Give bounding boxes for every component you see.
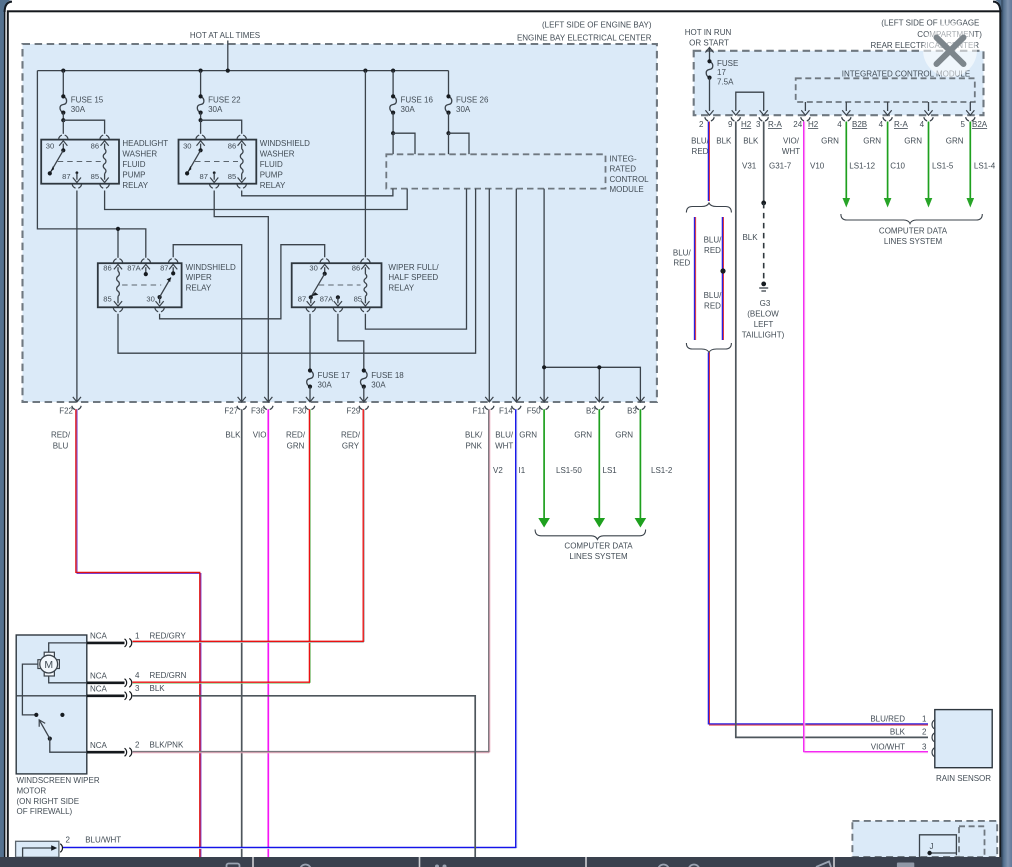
wire relay4 pin85 to ICM (365, 189, 466, 330)
svg-text:86: 86 (228, 142, 236, 151)
wire ICM to F11 (485, 189, 493, 402)
svg-text:WINDSHIELD: WINDSHIELD (260, 139, 310, 148)
svg-text:7.5A: 7.5A (717, 78, 734, 87)
park switch (34, 713, 64, 741)
svg-text:RED/GRY: RED/GRY (150, 631, 187, 640)
net HOT AT ALL TIMES (190, 31, 260, 71)
svg-text:FUSE 16: FUSE 16 (401, 96, 434, 105)
svg-text:B2B: B2B (852, 120, 867, 129)
fuse F17 7.5A (rear) (705, 48, 738, 116)
svg-text:WHT: WHT (495, 441, 513, 450)
ICM rear pin wire x=805.4 (801, 102, 809, 115)
svg-text:H2: H2 (808, 120, 819, 129)
connector F27 (224, 406, 246, 416)
fuse F15 30A (60, 71, 105, 134)
wire GRN data line x=970.3 (967, 122, 975, 208)
svg-text:G3: G3 (760, 299, 771, 308)
rear pin labels (699, 120, 988, 129)
svg-text:F36: F36 (251, 407, 265, 416)
wire GRN data line x=887.6 (884, 122, 892, 208)
svg-text:HEADLIGHT: HEADLIGHT (122, 139, 168, 148)
ICM rear pin wire x=928.5 (924, 102, 932, 115)
twisted pair brace bottom (686, 343, 731, 353)
svg-text:2: 2 (922, 727, 927, 736)
svg-text:GRN: GRN (615, 430, 633, 439)
wire pin2 BLU/RED upper section (708, 122, 709, 202)
wire F27 BLK to bottom (241, 409, 243, 857)
motor pin3 BLK wire to bottom (133, 696, 476, 857)
svg-text:V31: V31 (742, 161, 757, 170)
wire relay2 pin87 to F36 (214, 191, 272, 402)
connector B3 (627, 406, 645, 416)
svg-text:RED/GRN: RED/GRN (150, 671, 187, 680)
connector B2 (586, 406, 604, 416)
motor M symbol (38, 652, 60, 676)
svg-text:HALF SPEED: HALF SPEED (388, 273, 438, 282)
wire BLU/RED to rain sensor pin 1 (708, 353, 928, 726)
svg-text:86: 86 (352, 264, 360, 273)
svg-text:87: 87 (298, 295, 306, 304)
svg-text:BLU: BLU (53, 441, 69, 450)
wire GRN data line x=846.3 (843, 122, 851, 208)
svg-text:85: 85 (228, 172, 236, 181)
wire bus to windshield wiper relay pins 86/87A (37, 71, 145, 258)
svg-text:30A: 30A (318, 380, 333, 389)
svg-text:WINDSCREEN WIPER: WINDSCREEN WIPER (17, 776, 100, 785)
svg-text:1: 1 (922, 715, 927, 724)
svg-text:LS1-2: LS1-2 (651, 466, 673, 475)
svg-text:BLK: BLK (225, 430, 241, 439)
computer data lines brace (right) (841, 214, 982, 224)
svg-text:B2A: B2A (972, 120, 988, 129)
svg-text:LS1-5: LS1-5 (932, 161, 954, 170)
svg-text:RED/: RED/ (51, 430, 71, 439)
svg-text:BLU/: BLU/ (704, 236, 723, 245)
right window band (993, 0, 1012, 867)
svg-text:GRY: GRY (342, 441, 360, 450)
svg-text:(LEFT SIDE OF ENGINE BAY): (LEFT SIDE OF ENGINE BAY) (542, 20, 652, 29)
svg-text:COMPUTER DATA: COMPUTER DATA (879, 227, 948, 236)
ground G3 (742, 282, 785, 340)
svg-text:WHT: WHT (782, 147, 800, 156)
svg-text:VIO/WHT: VIO/WHT (871, 742, 905, 751)
svg-text:PUMP: PUMP (122, 170, 145, 179)
svg-text:GRN: GRN (863, 137, 881, 146)
svg-text:85: 85 (103, 295, 111, 304)
svg-text:30A: 30A (71, 105, 86, 114)
svg-text:BLK: BLK (716, 137, 732, 146)
rear electrical center caption (870, 19, 982, 51)
svg-text:(ON RIGHT SIDE: (ON RIGHT SIDE (17, 797, 80, 806)
wire relay1 pin85 to ICM (105, 189, 408, 210)
relay: wiper full/half speed relay (292, 259, 440, 312)
svg-text:RED/: RED/ (286, 430, 306, 439)
wire pin24 VIO/WHT to rain sensor pin 3 (804, 122, 928, 753)
wire bus to relay4 pin86 (364, 71, 366, 258)
svg-text:C10: C10 (890, 161, 905, 170)
rear electrical center box (694, 51, 984, 115)
svg-text:BLK: BLK (890, 727, 906, 736)
motor wire to pin 4 (49, 676, 87, 683)
rear module (partial, bottom right) (852, 821, 997, 857)
svg-text:FUSE 22: FUSE 22 (208, 96, 241, 105)
svg-text:4: 4 (920, 120, 925, 129)
svg-text:WIPER: WIPER (186, 273, 212, 282)
windscreen wiper motor caption (17, 776, 100, 816)
twisted pair brace top (686, 203, 731, 213)
motor pin 1 (87, 631, 187, 647)
svg-text:F27: F27 (224, 407, 238, 416)
svg-text:G31-7: G31-7 (769, 161, 792, 170)
svg-text:F50: F50 (527, 407, 541, 416)
svg-text:GRN: GRN (519, 430, 537, 439)
engine bay electrical center box (23, 44, 657, 402)
wire pin3 BLK to ground G3 (742, 122, 766, 282)
svg-text:RED/: RED/ (341, 430, 361, 439)
svg-text:F29: F29 (347, 407, 361, 416)
svg-text:FUSE 15: FUSE 15 (71, 96, 104, 105)
svg-text:RELAY: RELAY (122, 181, 148, 190)
svg-text:85: 85 (354, 295, 362, 304)
svg-text:4: 4 (879, 120, 884, 129)
connector F14 (499, 406, 521, 416)
svg-text:NCA: NCA (90, 685, 108, 694)
svg-text:J: J (930, 842, 934, 851)
svg-text:F22: F22 (59, 407, 73, 416)
svg-text:R-A: R-A (894, 120, 908, 129)
svg-text:CONTROL: CONTROL (610, 175, 650, 184)
svg-text:HOT AT ALL TIMES: HOT AT ALL TIMES (190, 31, 260, 40)
svg-text:FUSE 26: FUSE 26 (456, 96, 489, 105)
svg-text:PUMP: PUMP (260, 170, 283, 179)
svg-text:BLU/RED: BLU/RED (870, 715, 905, 724)
wire GRN data line x=928.5 (925, 122, 933, 208)
svg-text:LS1-12: LS1-12 (849, 161, 875, 170)
svg-text:5: 5 (961, 120, 966, 129)
svg-text:V10: V10 (810, 161, 825, 170)
svg-text:HOT IN RUN: HOT IN RUN (685, 28, 732, 37)
svg-text:GRN: GRN (287, 441, 305, 450)
svg-text:I1: I1 (519, 466, 526, 475)
rain sensor box (935, 710, 992, 768)
svg-text:85: 85 (91, 172, 99, 181)
wire relay3 pin87 to F27 (173, 245, 246, 402)
wire relay3 pin30 to relay4 pin30 (160, 245, 325, 319)
svg-text:WIPER FULL/: WIPER FULL/ (388, 263, 439, 272)
twisted pair line A (695, 217, 696, 340)
svg-text:(BELOW: (BELOW (747, 310, 779, 319)
svg-text:BLU/: BLU/ (691, 137, 710, 146)
svg-text:NCA: NCA (90, 632, 108, 641)
svg-text:GRN: GRN (821, 137, 839, 146)
svg-text:LINES SYSTEM: LINES SYSTEM (884, 237, 943, 246)
svg-text:86: 86 (91, 142, 99, 151)
rear center internal link pin9 to pin3 (732, 92, 768, 115)
svg-text:NCA: NCA (90, 672, 108, 681)
svg-text:F14: F14 (499, 407, 513, 416)
svg-text:B2: B2 (586, 407, 596, 416)
close button (923, 23, 977, 77)
fuse F18 30A (360, 368, 405, 402)
svg-text:2: 2 (699, 120, 704, 129)
svg-text:R-A: R-A (768, 120, 782, 129)
svg-text:87A: 87A (127, 264, 141, 273)
svg-text:BLK: BLK (742, 233, 758, 242)
integrated control module caption (610, 154, 650, 194)
motor pin3 internal line (16, 695, 87, 697)
svg-text:FUSE: FUSE (717, 59, 738, 68)
computer data lines brace (left) (535, 530, 646, 540)
svg-text:ENGINE BAY ELECTRICAL CENTER: ENGINE BAY ELECTRICAL CENTER (517, 33, 652, 42)
svg-text:GRN: GRN (946, 137, 964, 146)
bottom toolbar (0, 857, 1002, 867)
fuse F17 30A (306, 368, 351, 402)
motor pin 3 (87, 684, 165, 700)
svg-text:87: 87 (160, 264, 168, 273)
svg-text:4: 4 (837, 120, 842, 129)
windscreen wiper motor box (16, 635, 87, 774)
twisted pair line B with splice (720, 217, 725, 340)
svg-text:MOTOR: MOTOR (17, 786, 47, 795)
wire F11 BLK/PNK to wiper motor pin 2 (133, 409, 490, 752)
svg-text:B3: B3 (627, 407, 637, 416)
svg-text:3: 3 (922, 742, 927, 751)
svg-text:17: 17 (717, 68, 726, 77)
svg-text:GRN: GRN (574, 430, 592, 439)
ICM rear pin wire x=846.3 (842, 102, 850, 115)
svg-text:30A: 30A (208, 105, 223, 114)
wire F30 RED/GRN to wiper motor pin 4 (133, 409, 311, 683)
svg-text:V2: V2 (493, 466, 503, 475)
connector F36 (251, 406, 273, 416)
fuse F16 30A (390, 71, 434, 155)
connector F29 (347, 406, 369, 416)
ICM rear pin wire x=887.6 (884, 102, 892, 115)
svg-text:1: 1 (135, 631, 140, 640)
wire F22 RED/BLU to bottom (76, 409, 201, 857)
svg-text:RED: RED (692, 147, 709, 156)
svg-text:BLK: BLK (743, 137, 759, 146)
svg-text:RELAY: RELAY (186, 284, 212, 293)
svg-text:3: 3 (135, 684, 140, 693)
svg-text:RATED: RATED (610, 165, 637, 174)
svg-text:NCA: NCA (90, 741, 108, 750)
svg-text:RED: RED (704, 246, 721, 255)
svg-text:PNK: PNK (465, 441, 482, 450)
wire relay4 pin87 to fuse F17 (309, 314, 311, 371)
wire F29 RED/GRY to wiper motor pin 1 (133, 409, 365, 642)
svg-text:OR START: OR START (689, 38, 729, 47)
svg-text:87A: 87A (320, 295, 334, 304)
connector F30 (293, 406, 315, 416)
svg-text:LS1: LS1 (603, 466, 618, 475)
wire ICM to F50 B2 B3 green bus (540, 189, 645, 402)
motor pin 2 (87, 741, 184, 757)
svg-text:F11: F11 (473, 407, 487, 416)
wire ICM to F14 (512, 189, 520, 402)
wire F14 BLU/WHT to washer control module (63, 409, 517, 848)
svg-text:24: 24 (793, 120, 802, 129)
wire pin9 BLK to rain sensor pin 2 (736, 122, 928, 738)
rear wire colour labels (691, 137, 996, 171)
relay: windshield washer fluid pump relay (179, 135, 311, 190)
svg-text:LEFT: LEFT (754, 320, 774, 329)
svg-text:30A: 30A (456, 105, 471, 114)
wire B2 GRN data line (594, 409, 606, 527)
svg-text:86: 86 (103, 264, 111, 273)
svg-text:VIO: VIO (253, 430, 267, 439)
left window band (0, 0, 12, 867)
svg-text:MODULE: MODULE (610, 185, 644, 194)
svg-text:BLK: BLK (150, 684, 166, 693)
svg-text:INTEG-: INTEG- (610, 154, 637, 163)
computer data lines caption (right) (879, 227, 948, 247)
relay: headlight washer fluid pump relay (41, 135, 168, 190)
svg-text:BLU/WHT: BLU/WHT (85, 835, 121, 844)
svg-text:3: 3 (756, 120, 761, 129)
net HOT IN RUN OR START (685, 28, 732, 48)
svg-text:OF FIREWALL): OF FIREWALL) (17, 807, 73, 816)
svg-text:FUSE 18: FUSE 18 (371, 371, 404, 380)
rain sensor pins (870, 715, 934, 757)
wire B3 GRN data line (635, 409, 647, 527)
svg-text:BLU/: BLU/ (673, 248, 692, 257)
svg-text:COMPUTER DATA: COMPUTER DATA (564, 542, 633, 551)
svg-text:87: 87 (62, 172, 70, 181)
connector F11 (473, 406, 494, 416)
wire relay1 pin87 to F22 (73, 191, 81, 402)
motor brush to ground path (22, 664, 38, 715)
svg-text:30: 30 (309, 264, 317, 273)
svg-text:30: 30 (46, 142, 54, 151)
svg-text:FLUID: FLUID (260, 160, 283, 169)
svg-text:4: 4 (135, 671, 140, 680)
svg-text:LINES SYSTEM: LINES SYSTEM (569, 552, 628, 561)
svg-text:2: 2 (135, 741, 140, 750)
integrated control module box (engine bay) (386, 154, 605, 188)
svg-text:RELAY: RELAY (260, 181, 286, 190)
svg-text:TAILLIGHT): TAILLIGHT) (742, 331, 785, 340)
svg-text:FUSE 17: FUSE 17 (318, 371, 351, 380)
wire relay2 pin85 to ICM (242, 189, 393, 196)
wire relay4 pin87A to fuse F18 (338, 314, 364, 371)
svg-text:30: 30 (146, 295, 154, 304)
svg-text:9: 9 (728, 120, 733, 129)
connector F22 (59, 406, 81, 416)
svg-text:WINDSHIELD: WINDSHIELD (186, 263, 236, 272)
ICM rear pin wire x=970.3 (966, 102, 974, 115)
svg-text:RELAY: RELAY (388, 284, 414, 293)
wire F50 GRN data line (538, 409, 550, 527)
computer data lines caption (left) (564, 542, 633, 562)
svg-text:2: 2 (66, 835, 71, 844)
wire relay3 pin85 to ICM (118, 189, 476, 354)
washer control module (partial) (16, 835, 122, 857)
svg-text:H2: H2 (741, 120, 752, 129)
svg-text:(LEFT SIDE OF LUGGAGE: (LEFT SIDE OF LUGGAGE (881, 19, 979, 28)
svg-text:LS1-4: LS1-4 (974, 161, 996, 170)
svg-text:RED: RED (704, 301, 721, 310)
relay: windshield wiper relay (98, 259, 236, 312)
svg-text:WASHER: WASHER (122, 150, 157, 159)
svg-text:F30: F30 (293, 407, 307, 416)
svg-text:LS1-50: LS1-50 (556, 466, 582, 475)
switch wire to pin 2 (50, 739, 87, 753)
fuse F26 30A (445, 71, 489, 155)
svg-text:RAIN SENSOR: RAIN SENSOR (936, 774, 991, 783)
motor pin 4 (87, 671, 187, 687)
rear center pin connectors (705, 117, 975, 121)
engine bay electrical center caption (517, 20, 652, 42)
svg-text:M: M (44, 659, 53, 671)
fuse F22 30A (197, 71, 241, 134)
svg-text:RED: RED (673, 259, 690, 268)
svg-text:BLK/: BLK/ (465, 430, 483, 439)
power bus wire (37, 69, 448, 73)
svg-text:87: 87 (199, 172, 207, 181)
svg-text:30A: 30A (401, 105, 416, 114)
integrated control module box (rear) (796, 78, 975, 102)
connector F50 (527, 406, 549, 416)
svg-text:30: 30 (183, 142, 191, 151)
svg-text:WASHER: WASHER (260, 150, 295, 159)
wire F36 VIO to bottom (267, 409, 269, 857)
svg-text:30A: 30A (371, 380, 386, 389)
motor wire to pin 1 (49, 643, 87, 652)
svg-text:BLK/PNK: BLK/PNK (150, 741, 184, 750)
svg-text:BLU/: BLU/ (704, 291, 723, 300)
svg-text:FLUID: FLUID (122, 160, 145, 169)
twisted pair labels (673, 236, 722, 311)
svg-text:BLU/: BLU/ (495, 430, 514, 439)
svg-text:GRN: GRN (904, 137, 922, 146)
svg-text:VIO/: VIO/ (783, 137, 800, 146)
